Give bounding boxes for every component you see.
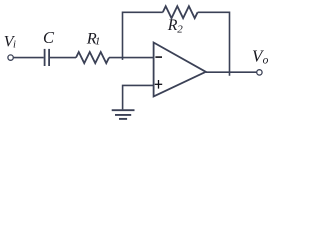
svg-text:C: C	[43, 28, 55, 47]
svg-text:1: 1	[95, 35, 101, 47]
svg-text:o: o	[263, 55, 269, 67]
svg-text:R: R	[167, 17, 178, 34]
svg-text:2: 2	[177, 24, 183, 36]
svg-text:i: i	[13, 40, 16, 51]
